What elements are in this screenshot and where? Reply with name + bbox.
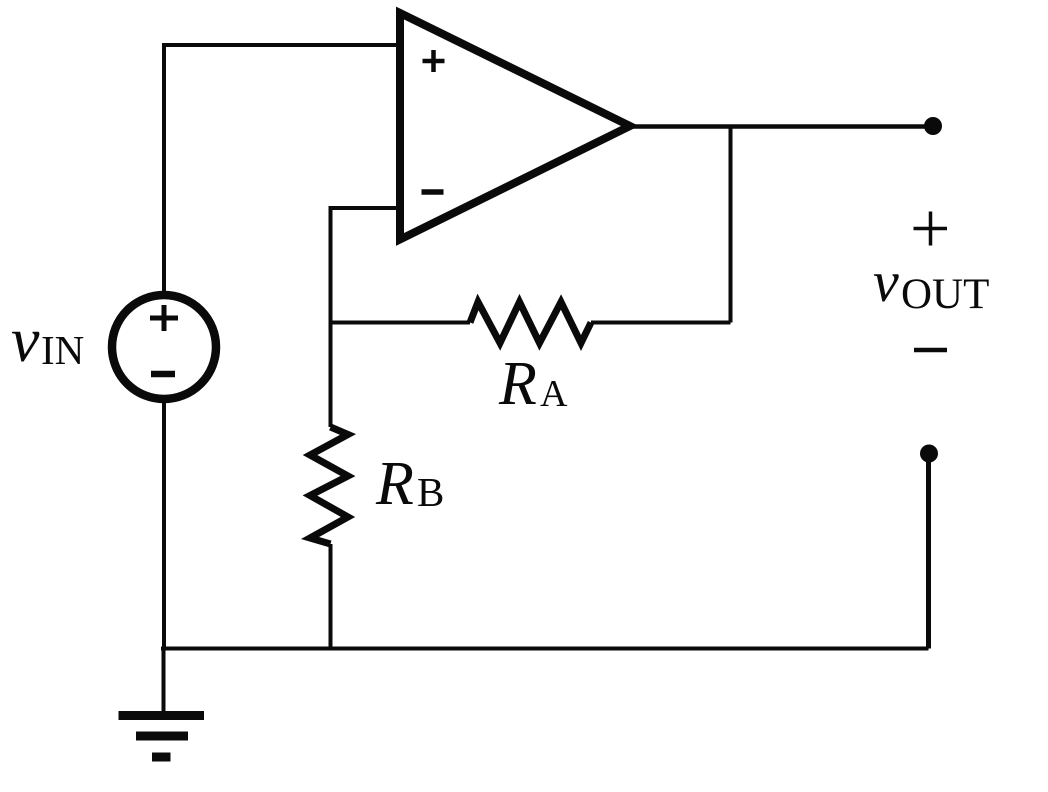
svg-text:R: R — [375, 450, 414, 518]
op-amp plus input label — [423, 50, 445, 72]
wire inverting input with feedback vertical — [331, 208, 400, 427]
label vOUT — [873, 249, 989, 318]
wire right vertical to lower node — [926, 455, 931, 649]
op-amp U1 — [400, 13, 630, 240]
label plus for vOUT — [914, 212, 948, 246]
wire R_A right lead — [591, 321, 731, 325]
label RB — [375, 450, 444, 518]
svg-text:v: v — [873, 249, 899, 314]
wire from source bottom to bottom rail — [162, 390, 166, 648]
wire from source top to op-amp non-inverting input — [164, 45, 399, 300]
label vIN — [11, 304, 84, 375]
wire op-amp output — [628, 124, 933, 129]
svg-text:IN: IN — [41, 327, 84, 373]
svg-text:OUT: OUT — [901, 271, 989, 318]
node output dot — [924, 117, 942, 135]
svg-text:v: v — [11, 304, 40, 375]
voltage source v_IN — [112, 295, 216, 399]
label minus for vOUT — [914, 348, 947, 353]
wire R_A left lead — [331, 321, 471, 325]
wire bottom rail — [161, 647, 929, 651]
op-amp minus input label — [422, 189, 444, 195]
svg-text:R: R — [498, 350, 537, 418]
ground — [119, 648, 205, 757]
wire R_B bottom lead — [329, 544, 333, 648]
label RA — [498, 350, 568, 418]
resistor R_B — [310, 427, 348, 544]
svg-text:B: B — [417, 469, 444, 515]
wire output feedback drop — [729, 126, 733, 323]
svg-text:A: A — [540, 373, 568, 415]
resistor R_A — [470, 302, 591, 343]
node lower output dot — [920, 445, 938, 463]
